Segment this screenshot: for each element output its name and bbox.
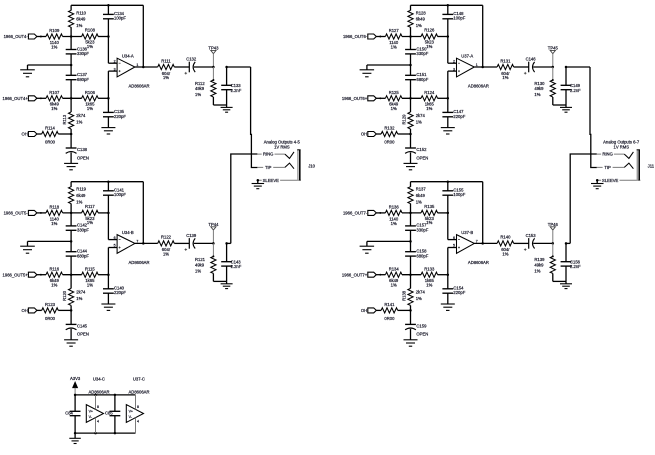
svg-text:1%: 1% — [502, 75, 508, 80]
wire bottom tie — [553, 104, 566, 106]
wire inverting input — [447, 195, 457, 239]
capacitor C152 OPEN polarized — [405, 134, 428, 163]
capacitor C146 polarized — [514, 57, 553, 75]
wire — [98, 97, 110, 100]
svg-text:C139: C139 — [186, 233, 197, 238]
svg-text:1966_OUT7+: 1966_OUT7+ — [342, 272, 368, 277]
svg-text:1966_OUT6-: 1966_OUT6- — [343, 34, 368, 39]
connector 1966_OUT6+ — [342, 96, 385, 101]
capacitor C158 680pF — [405, 241, 429, 274]
resistor R106 1k65 — [82, 90, 99, 111]
svg-text:AD8606AR: AD8606AR — [89, 390, 110, 395]
svg-text:0R00: 0R00 — [45, 140, 56, 145]
svg-text:U37-C: U37-C — [133, 377, 145, 382]
svg-text:R110: R110 — [76, 10, 86, 15]
resistor R112 49k9 vertical — [195, 67, 216, 105]
svg-text:SLEEVE: SLEEVE — [602, 178, 619, 183]
wire — [63, 212, 82, 214]
svg-text:1%: 1% — [391, 282, 397, 287]
svg-text:R137: R137 — [416, 187, 427, 192]
capacitor C153 polarized — [514, 233, 553, 251]
svg-text:U34-C: U34-C — [93, 377, 105, 382]
capacitor C141 100pF — [103, 182, 126, 197]
node input- junction — [409, 35, 412, 38]
svg-text:R124: R124 — [424, 90, 435, 95]
svg-text:1966_OUT4-: 1966_OUT4- — [4, 34, 29, 39]
svg-text:AD8606AR: AD8606AR — [468, 84, 489, 89]
capacitor C159 OPEN polarized — [405, 310, 428, 339]
svg-text:OPEN: OPEN — [416, 155, 428, 160]
svg-text:OPEN: OPEN — [416, 332, 428, 337]
svg-text:R106: R106 — [85, 90, 96, 95]
svg-text:R126: R126 — [424, 28, 435, 33]
wire — [402, 36, 421, 38]
svg-text:1%: 1% — [416, 120, 422, 125]
svg-text:1%: 1% — [76, 199, 82, 204]
ground — [101, 293, 115, 310]
svg-text:1%: 1% — [391, 221, 397, 226]
svg-text:0R00: 0R00 — [45, 316, 56, 321]
wire — [438, 97, 450, 100]
svg-text:8: 8 — [97, 405, 99, 409]
wire non-inverting input — [108, 248, 117, 289]
connector 1966_OUT6- — [343, 34, 385, 39]
wire bottom tie — [213, 280, 226, 282]
svg-text:0R00: 0R00 — [384, 140, 395, 145]
svg-text:330pF: 330pF — [416, 51, 428, 56]
capacitor C137 680pF — [66, 65, 90, 98]
capacitor C84 — [65, 395, 80, 433]
capacitor C144 680pF — [66, 241, 90, 274]
svg-text:Analog Outputs 4-5: Analog Outputs 4-5 — [264, 139, 301, 144]
capacitor C139 polarized — [174, 233, 213, 251]
svg-text:2: 2 — [114, 59, 116, 63]
test point TP45 — [548, 46, 559, 69]
connector 1966_OUT4- — [4, 34, 46, 39]
ground — [64, 163, 78, 170]
svg-text:1%: 1% — [416, 296, 422, 301]
connector 1966_OUT5+ — [3, 272, 46, 277]
svg-text:2.2nF: 2.2nF — [231, 264, 242, 269]
svg-text:2: 2 — [453, 59, 455, 63]
svg-text:220pF: 220pF — [453, 290, 465, 295]
svg-text:680pF: 680pF — [416, 77, 428, 82]
svg-text:U37-B: U37-B — [461, 230, 473, 235]
svg-text:AD8606AR: AD8606AR — [129, 84, 150, 89]
svg-text:OH: OH — [361, 308, 367, 313]
svg-text:C132: C132 — [186, 57, 197, 62]
capacitor C145 OPEN polarized — [66, 310, 89, 339]
wire output to jack RING — [566, 154, 597, 243]
ground — [221, 105, 233, 112]
capacitor C154 220pF — [442, 286, 465, 296]
capacitor C150 330pF — [405, 37, 429, 57]
wire — [63, 36, 82, 38]
svg-text:220pF: 220pF — [114, 114, 126, 119]
op-amp U34-B AD8606AR — [114, 230, 150, 265]
resistor R125 6k49 — [385, 90, 402, 111]
op-amp U37-A AD8606AR — [453, 54, 489, 89]
svg-text:2k74: 2k74 — [76, 290, 86, 295]
svg-text:2.2nF: 2.2nF — [231, 88, 242, 93]
svg-text:1%: 1% — [195, 269, 201, 274]
svg-text:1%: 1% — [534, 269, 540, 274]
wire feedback top rail — [411, 4, 483, 7]
svg-text:1%: 1% — [76, 296, 82, 301]
resistor R140 604r — [497, 235, 514, 257]
svg-text:R111: R111 — [161, 58, 171, 63]
svg-text:R114: R114 — [45, 126, 55, 131]
svg-text:1%: 1% — [76, 23, 82, 28]
svg-text:1%: 1% — [195, 92, 201, 97]
wire — [98, 212, 108, 214]
svg-text:OPEN: OPEN — [77, 332, 89, 337]
svg-text:U34-A: U34-A — [122, 54, 134, 59]
resistor R123 0R00 — [42, 302, 59, 321]
svg-text:R130: R130 — [534, 81, 545, 86]
resistor R137 6k49 vertical — [408, 182, 426, 213]
svg-text:R115: R115 — [85, 266, 95, 271]
ground — [560, 105, 572, 112]
resistor R136 1140 — [385, 204, 402, 226]
wire bottom tie — [213, 104, 226, 106]
resistor R117 5k23 — [82, 204, 99, 225]
svg-text:1966_OUT4+: 1966_OUT4+ — [3, 96, 29, 101]
svg-text:6: 6 — [114, 236, 116, 240]
resistor R127 1140 — [385, 28, 402, 50]
wire non-inverting input — [108, 71, 117, 112]
svg-text:OPEN: OPEN — [77, 155, 89, 160]
wire inverting input — [447, 19, 457, 63]
svg-text:0R00: 0R00 — [384, 316, 395, 321]
svg-text:TIP: TIP — [604, 165, 611, 170]
svg-text:A3V3: A3V3 — [70, 376, 81, 381]
ground — [221, 281, 233, 288]
svg-text:49k9: 49k9 — [195, 86, 205, 91]
ground — [560, 281, 572, 288]
svg-text:4: 4 — [97, 420, 99, 424]
svg-text:R109: R109 — [49, 28, 60, 33]
wire V- rail — [74, 432, 136, 435]
svg-text:U37-A: U37-A — [461, 54, 473, 59]
capacitor C134 100pF — [103, 5, 126, 20]
ground — [404, 339, 418, 346]
svg-text:680pF: 680pF — [77, 77, 89, 82]
svg-text:R135: R135 — [424, 204, 435, 209]
resistor R130 49k9 vertical — [534, 67, 555, 105]
ground — [64, 339, 78, 346]
wire — [398, 309, 412, 312]
svg-text:V+: V+ — [89, 410, 93, 414]
wire V+ rail — [74, 394, 136, 397]
svg-text:5: 5 — [114, 244, 116, 248]
svg-text:8: 8 — [137, 405, 139, 409]
svg-text:1%: 1% — [426, 106, 432, 111]
svg-text:R113: R113 — [62, 114, 67, 124]
svg-text:5: 5 — [453, 244, 455, 248]
svg-text:330pF: 330pF — [77, 51, 89, 56]
svg-text:1%: 1% — [87, 106, 93, 111]
resistor R134 6k49 — [385, 266, 402, 287]
svg-text:1%: 1% — [163, 252, 169, 257]
svg-text:1%: 1% — [416, 23, 422, 28]
svg-text:220pF: 220pF — [453, 114, 465, 119]
svg-text:R136: R136 — [389, 204, 400, 209]
capacitor C140 220pF — [103, 286, 126, 296]
wire — [98, 36, 108, 38]
wire non-inverting input — [448, 71, 457, 112]
wire — [58, 309, 72, 312]
svg-text:6k49: 6k49 — [76, 193, 86, 198]
resistor R119 6k49 vertical — [69, 182, 87, 213]
svg-text:1%: 1% — [87, 44, 93, 49]
op-amp U37-B AD8606AR — [453, 230, 489, 265]
svg-text:3: 3 — [114, 67, 116, 71]
svg-text:100pF: 100pF — [114, 16, 126, 21]
svg-text:6: 6 — [453, 236, 455, 240]
svg-text:SLEEVE: SLEEVE — [263, 178, 280, 183]
wire inverting input — [107, 19, 117, 63]
ground mid tap — [360, 230, 412, 253]
svg-text:1%: 1% — [391, 106, 397, 111]
capacitor C156 2.2nF — [561, 242, 582, 281]
svg-text:2k74: 2k74 — [416, 113, 426, 118]
connector 1966_OUT4+ — [3, 96, 46, 101]
svg-text:2k74: 2k74 — [76, 113, 86, 118]
svg-text:1%: 1% — [426, 220, 432, 225]
svg-text:R119: R119 — [76, 187, 86, 192]
wire output to jack TIP — [566, 67, 597, 168]
test point TP46 — [548, 222, 559, 245]
svg-text:C153: C153 — [526, 233, 537, 238]
wire — [402, 97, 421, 100]
svg-text:680pF: 680pF — [77, 253, 89, 258]
svg-text:R134: R134 — [389, 266, 400, 271]
resistor R141 0R00 — [381, 302, 398, 321]
svg-text:330pF: 330pF — [77, 228, 89, 233]
resistor R121 49k9 vertical — [195, 243, 216, 281]
resistor R120 2k74 vertical — [62, 275, 86, 311]
ground mid tap — [360, 54, 412, 77]
capacitor C136 330pF — [66, 37, 90, 57]
svg-text:AD8606AR: AD8606AR — [468, 260, 489, 265]
node input- junction — [70, 212, 73, 215]
svg-text:2.2nF: 2.2nF — [570, 88, 581, 93]
svg-text:1%: 1% — [87, 220, 93, 225]
svg-text:R128: R128 — [416, 10, 427, 15]
svg-text:OH: OH — [361, 132, 367, 137]
resistor R116 6k49 — [46, 266, 63, 287]
svg-text:C84: C84 — [65, 410, 73, 415]
capacitor C155 100pF — [442, 182, 465, 197]
ground mid tap — [20, 54, 72, 77]
wire feedback top rail — [411, 180, 483, 183]
capacitor C142 330pF — [66, 213, 90, 233]
svg-text:1%: 1% — [426, 44, 432, 49]
svg-text:R131: R131 — [500, 58, 511, 63]
resistor R135 5k23 — [421, 204, 438, 225]
wire — [438, 212, 448, 214]
resistor R108 5k23 — [82, 28, 99, 49]
wire inverting input — [107, 195, 117, 239]
svg-text:330pF: 330pF — [416, 228, 428, 233]
connector 1966_OUT7+ — [342, 272, 385, 277]
svg-text:1%: 1% — [426, 282, 432, 287]
resistor R113 2k74 vertical — [62, 98, 86, 134]
resistor R115 1k65 — [82, 266, 99, 287]
svg-text:OH: OH — [22, 308, 28, 313]
svg-text:6k49: 6k49 — [416, 193, 426, 198]
svg-text:R122: R122 — [161, 235, 172, 240]
resistor R126 5k23 — [421, 28, 438, 49]
resistor R118 1140 — [46, 204, 63, 226]
svg-text:1966_OUT5-: 1966_OUT5- — [4, 211, 29, 216]
connector OH — [361, 132, 381, 137]
wire bottom tie — [553, 280, 566, 282]
capacitor C133 2.2nF — [221, 66, 242, 105]
resistor R122 604r — [158, 235, 175, 257]
power net A3V3 — [70, 376, 81, 395]
svg-text:R116: R116 — [49, 266, 59, 271]
wire — [58, 133, 72, 136]
ground — [69, 433, 81, 443]
resistor R111 604r — [158, 58, 175, 80]
svg-text:1%: 1% — [163, 75, 169, 80]
jack J10 SLEEVE — [257, 178, 301, 183]
resistor R138 2k74 vertical — [401, 275, 425, 311]
ground — [404, 163, 418, 170]
jack J10 TIP contact — [257, 163, 294, 170]
svg-text:R107: R107 — [49, 90, 60, 95]
ground — [441, 117, 455, 134]
svg-text:100pF: 100pF — [453, 16, 465, 21]
svg-text:6k49: 6k49 — [76, 17, 86, 22]
svg-text:1V RMS: 1V RMS — [274, 145, 290, 150]
connector OH — [22, 308, 42, 313]
resistor R124 1k65 — [421, 90, 438, 111]
wire output and feedback — [474, 5, 497, 68]
svg-text:1966_OUT7-: 1966_OUT7- — [343, 211, 368, 216]
svg-text:C159: C159 — [416, 323, 427, 328]
svg-text:R141: R141 — [384, 302, 395, 307]
jack J10 RING contact — [257, 152, 294, 159]
svg-text:6k49: 6k49 — [416, 17, 426, 22]
svg-text:1%: 1% — [391, 45, 397, 50]
resistor R114 0R00 — [42, 126, 59, 145]
svg-text:1%: 1% — [87, 282, 93, 287]
wire feedback top rail — [71, 4, 143, 7]
ground — [252, 180, 265, 188]
svg-text:R129: R129 — [401, 114, 406, 125]
svg-text:4: 4 — [137, 420, 139, 424]
op-amp U37-C power AD8606AR — [126, 377, 149, 434]
svg-text:C145: C145 — [77, 323, 88, 328]
svg-text:Analog Outputs 6-7: Analog Outputs 6-7 — [603, 139, 640, 144]
svg-text:J11: J11 — [648, 164, 655, 169]
svg-text:220pF: 220pF — [114, 290, 126, 295]
wire output to jack TIP — [227, 67, 258, 168]
wire — [402, 212, 421, 214]
wire output and feedback — [474, 182, 497, 245]
svg-text:R132: R132 — [384, 126, 395, 131]
svg-text:3: 3 — [453, 67, 455, 71]
svg-text:R125: R125 — [389, 90, 400, 95]
wire — [63, 97, 82, 100]
resistor R133 1k65 — [421, 266, 438, 287]
connector OH — [361, 308, 381, 313]
svg-text:49k9: 49k9 — [195, 263, 205, 268]
svg-text:1%: 1% — [51, 106, 57, 111]
connector 1966_OUT5- — [4, 210, 46, 215]
svg-text:C152: C152 — [416, 147, 427, 152]
ground — [101, 117, 115, 134]
resistor R132 0R00 — [381, 126, 398, 145]
ground — [441, 293, 455, 310]
svg-text:1%: 1% — [534, 92, 540, 97]
svg-text:1%: 1% — [51, 45, 57, 50]
svg-text:R140: R140 — [500, 235, 511, 240]
wire output to jack RING — [227, 154, 258, 243]
node input- junction — [70, 35, 73, 38]
svg-text:100pF: 100pF — [453, 192, 465, 197]
svg-text:C85: C85 — [105, 410, 113, 415]
node input- junction — [409, 212, 412, 215]
resistor R131 604r — [497, 58, 514, 80]
svg-text:R123: R123 — [45, 302, 56, 307]
wire — [402, 273, 421, 276]
jack J11 label — [603, 139, 640, 149]
svg-text:2k74: 2k74 — [416, 290, 426, 295]
resistor R107 6k49 — [46, 90, 63, 111]
svg-text:C138: C138 — [77, 147, 88, 152]
connector 1966_OUT7- — [343, 210, 385, 215]
svg-text:R108: R108 — [85, 28, 96, 33]
svg-text:1966_OUT5+: 1966_OUT5+ — [3, 272, 29, 277]
svg-text:TIP: TIP — [265, 165, 272, 170]
resistor R129 2k74 vertical — [401, 98, 425, 134]
svg-text:680pF: 680pF — [416, 253, 428, 258]
capacitor C132 polarized — [174, 57, 213, 75]
resistor R110 6k49 vertical — [69, 5, 87, 36]
resistor R128 6k49 vertical — [408, 5, 426, 36]
jack J11 RING contact — [597, 152, 634, 159]
svg-text:RING: RING — [602, 152, 612, 157]
capacitor C151 680pF — [405, 65, 429, 98]
capacitor C143 2.2nF — [221, 242, 242, 281]
svg-text:U34-B: U34-B — [122, 230, 134, 235]
svg-text:100pF: 100pF — [114, 192, 126, 197]
svg-text:R127: R127 — [389, 28, 400, 33]
op-amp U34-C power AD8606AR — [86, 377, 109, 434]
resistor R139 49k9 vertical — [534, 243, 555, 281]
jack J11 SLEEVE — [596, 178, 640, 183]
capacitor C149 2.2nF — [561, 66, 582, 105]
resistor R109 1140 — [46, 28, 63, 50]
svg-text:R117: R117 — [85, 204, 95, 209]
capacitor C147 220pF — [442, 109, 465, 119]
svg-text:49k9: 49k9 — [534, 86, 544, 91]
svg-text:1%: 1% — [76, 120, 82, 125]
svg-text:R133: R133 — [424, 266, 435, 271]
capacitor C148 100pF — [442, 5, 465, 20]
capacitor C85 — [105, 395, 120, 433]
jack J10 body — [297, 150, 315, 181]
svg-text:R139: R139 — [534, 257, 545, 262]
wire non-inverting input — [448, 248, 457, 289]
wire output and feedback — [135, 5, 158, 68]
capacitor C135 220pF — [103, 109, 126, 119]
jack J11 TIP contact — [597, 163, 634, 170]
